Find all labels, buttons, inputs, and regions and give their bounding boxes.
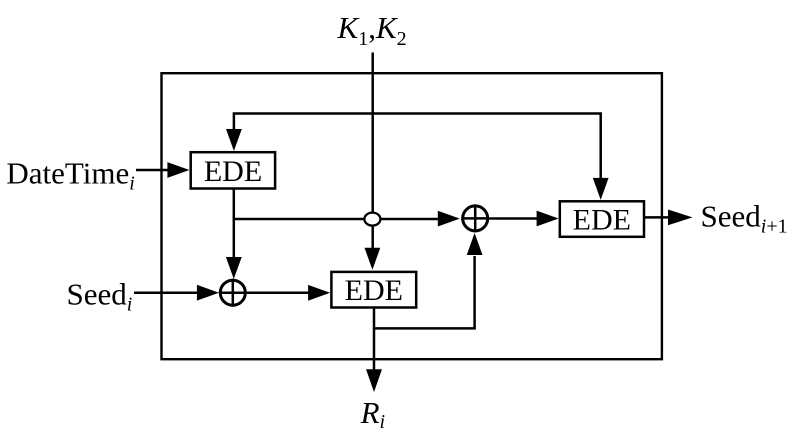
arrow into EDE2 left: [308, 285, 330, 301]
wire EDE3 output: [645, 216, 670, 219]
arrow into EDE3 left: [537, 211, 559, 227]
arrow into EDE1 left: [167, 162, 189, 178]
XOR gate X2: [461, 204, 489, 232]
arrow output R_i: [366, 369, 382, 392]
wire Seed_i input: [134, 292, 199, 295]
wire EDE1 output horizontal to XOR2: [233, 218, 439, 221]
wire EDE2 output fork up to XOR2: [374, 256, 475, 328]
svg-text:Seedi: Seedi: [67, 277, 133, 316]
node junction on K1,K2 line: [364, 213, 380, 226]
arrow into XOR1 top: [226, 257, 242, 279]
wire EDE2 bottom output to R_i: [373, 309, 376, 371]
EDE box U1: [191, 152, 275, 188]
svg-text:K1,K2: K1,K2: [337, 10, 407, 50]
svg-text:EDE: EDE: [573, 203, 631, 236]
arrow into EDE2 top: [365, 248, 381, 270]
arrow into XOR2 left: [438, 211, 460, 227]
wire feedback top horizontal to EDE1 and EDE3: [234, 114, 601, 181]
EDE box U3: [560, 201, 644, 237]
wire XOR2 to EDE3: [489, 217, 538, 220]
arrow into EDE3 top: [593, 178, 609, 200]
arrow into EDE1 top: [226, 129, 242, 151]
svg-text:DateTimei: DateTimei: [6, 155, 134, 194]
wire DateTime input: [136, 169, 169, 172]
svg-text:EDE: EDE: [345, 274, 403, 307]
wire K1,K2 vertical input: [371, 53, 374, 251]
XOR gate X1: [219, 279, 247, 307]
arrow output Seed_i+1: [668, 210, 693, 226]
arrow into XOR2 bottom: [467, 233, 483, 255]
arrow into XOR1 left: [197, 285, 219, 301]
svg-text:EDE: EDE: [204, 155, 262, 188]
wire EDE1 bottom down to XOR1: [233, 190, 236, 259]
outer box: [162, 73, 662, 359]
wire XOR1 to EDE2: [247, 292, 310, 295]
EDE box U2: [331, 272, 416, 308]
